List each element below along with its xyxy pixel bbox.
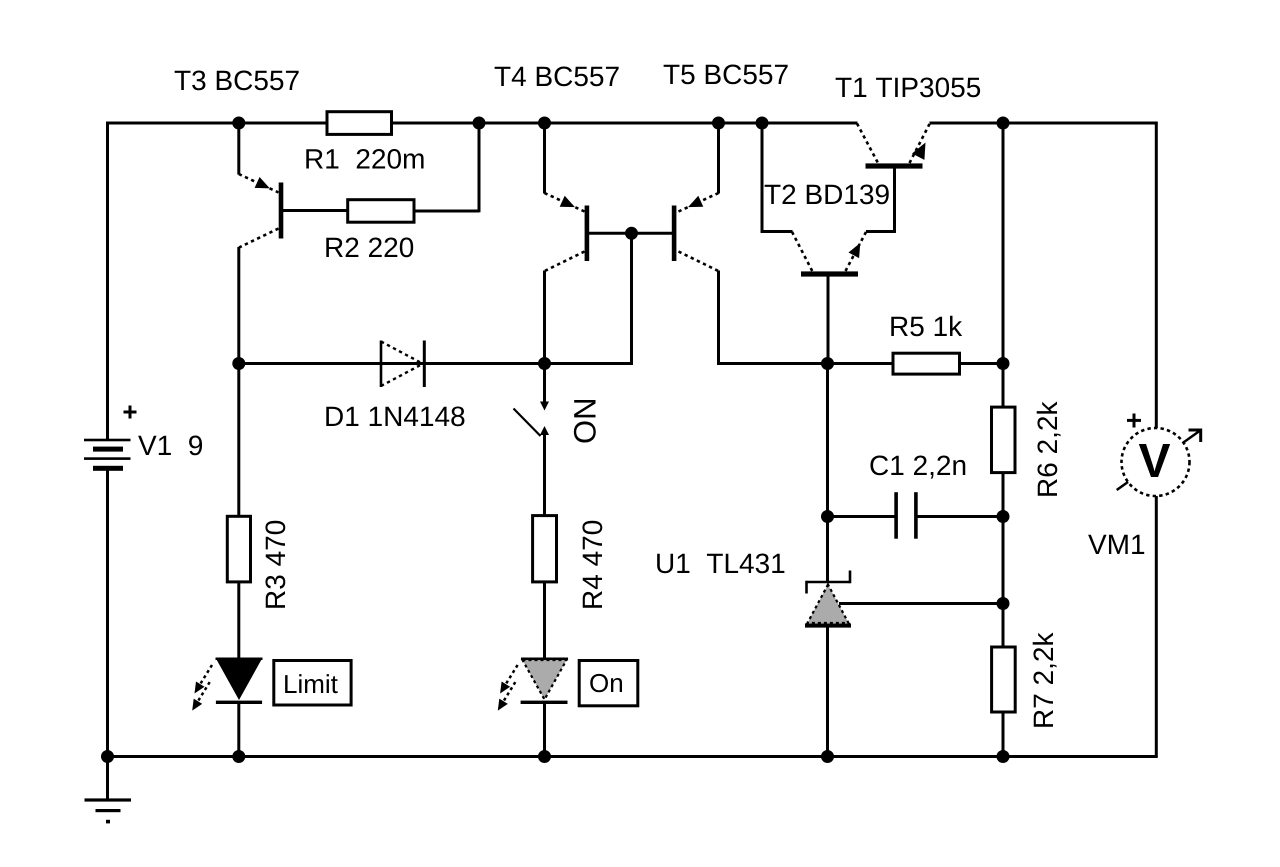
resistor R5 (893, 353, 960, 374)
label R2 220 (326, 237, 413, 257)
wire switch node to base riser (545, 362, 633, 365)
wire T5 collector to node B (717, 362, 829, 365)
label R6 2,2k (1037, 401, 1061, 495)
label T2 BD139 (765, 184, 889, 204)
ground (85, 757, 132, 824)
label R3 470 (265, 521, 285, 608)
junction node top rail T3 (232, 117, 245, 130)
junction node D (821, 510, 834, 523)
junction node top rail R2 riser (473, 117, 486, 130)
junction node C (997, 357, 1010, 370)
voltmeter VM1 (1117, 414, 1201, 497)
label U1 TL431 (657, 553, 784, 573)
resistor R3 (227, 516, 250, 582)
wire node B to R5 (828, 362, 895, 365)
transistor T4 (545, 123, 632, 271)
wire R7 to bottom rail (1002, 711, 1005, 758)
label R4 470 (582, 521, 602, 608)
wire T2 base drop (827, 275, 830, 365)
label box On (579, 661, 638, 706)
wire node A to R3 (237, 364, 240, 518)
wire T3 collector drop (237, 247, 240, 365)
label C1 2,2n (870, 455, 965, 478)
label T4 BC557 (495, 66, 619, 86)
transistor T5 (632, 123, 719, 271)
junction node top rail T5 (712, 117, 725, 130)
label T3 BC557 (175, 70, 299, 90)
wire R5 to node C (959, 362, 1004, 365)
transistor T3 (239, 123, 348, 248)
resistor R1 (327, 112, 392, 135)
junction node bottom ground (101, 750, 114, 763)
junction node bottom R7 (997, 750, 1010, 763)
junction node E (997, 510, 1010, 523)
label R5 1k (891, 316, 962, 337)
wire R2 to top rail riser (478, 123, 481, 212)
wire U1 anode to bottom rail (826, 626, 829, 758)
wire LED On to bottom rail (543, 703, 546, 758)
label T1 TIP3055 (836, 77, 980, 97)
LED D2 Limit (192, 659, 262, 711)
wire left rail lower (106, 470, 109, 758)
wire node A to D1 anode (239, 362, 545, 365)
wire R3 to LED Limit (237, 581, 240, 660)
junction node bottom LED Limit (232, 750, 245, 763)
label D1 1N4148 (326, 406, 464, 426)
wire R4 to LED On (543, 581, 546, 660)
shunt regulator U1 TL431 (805, 571, 851, 628)
wire T5 collector drop (717, 271, 720, 365)
junction node top rail R6 column (997, 117, 1010, 130)
junction node switch top (538, 357, 551, 370)
wire LED Limit to bottom rail (237, 703, 240, 758)
wire node D to C1 left plate (828, 515, 895, 518)
wire U1 ref to node F (839, 602, 1004, 605)
wire switch to R4 (543, 429, 546, 517)
transistor T2 (761, 123, 866, 277)
junction node bottom U1 (821, 750, 834, 763)
label R7 2,2k (1033, 632, 1057, 726)
resistor R6 (992, 407, 1016, 473)
wire T4 collector drop (543, 271, 546, 365)
label V1 9 (138, 435, 202, 455)
label ON switch (574, 400, 596, 443)
wire T4 T5 base riser (630, 233, 633, 364)
capacitor C1 (894, 492, 917, 539)
wire R6 to R7 (1002, 472, 1005, 648)
diode D1 (381, 341, 426, 388)
label box Limit (274, 661, 351, 706)
wire left rail upper (106, 122, 109, 440)
wire bottom rail (106, 755, 1157, 758)
junction node top rail T4 (538, 117, 551, 130)
transistor T1 (857, 124, 930, 233)
junction node F (997, 597, 1010, 610)
resistor R4 (533, 516, 557, 582)
label T5 BC557 (664, 64, 788, 84)
wire node B to U1 cathode (826, 364, 829, 583)
wire right rail lower (1155, 495, 1158, 758)
junction node bottom LED On (538, 750, 551, 763)
junction node top rail T2 (756, 117, 769, 130)
wire right rail upper (1155, 122, 1158, 430)
wire top rail left segment (106, 122, 858, 125)
wire C1 right plate to node E (917, 515, 1004, 518)
resistor R7 (992, 647, 1016, 712)
switch S1 (514, 364, 550, 440)
junction node A (232, 357, 245, 370)
wire top rail to R6 (1002, 123, 1005, 408)
LED D3 On (498, 659, 568, 711)
label R1 220m (306, 149, 423, 169)
label VM1 (1088, 535, 1144, 554)
wire top rail right segment (930, 122, 1158, 125)
junction node B (821, 357, 834, 370)
junction node T4 T5 base (625, 227, 638, 240)
battery V1 (84, 406, 137, 471)
resistor R2 (348, 200, 480, 223)
